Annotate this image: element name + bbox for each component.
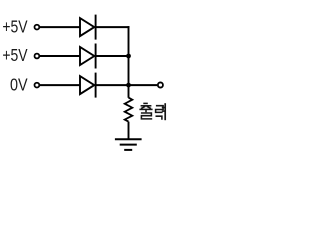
svg-text:0V: 0V xyxy=(10,74,28,94)
diode D1 xyxy=(80,15,96,40)
bus vertical wire xyxy=(128,26,130,98)
wire row 2 anode xyxy=(40,55,80,57)
resistor R1 xyxy=(125,98,133,122)
input terminal row 3 xyxy=(35,83,40,88)
wire row 1 cathode to bus xyxy=(96,26,130,28)
junction node row 3 xyxy=(126,83,131,88)
ground xyxy=(115,139,142,150)
diode D3 xyxy=(80,73,96,98)
wire row 2 cathode to bus xyxy=(96,55,129,57)
input terminal row 1 xyxy=(35,25,40,30)
wire resistor to ground xyxy=(128,122,130,140)
wire row 3 cathode to output xyxy=(96,84,158,86)
wire row 3 anode xyxy=(40,84,80,86)
junction node row 2 xyxy=(126,54,131,59)
input terminal row 2 xyxy=(35,54,40,59)
svg-text:+5V: +5V xyxy=(2,16,28,36)
svg-text:+5V: +5V xyxy=(2,45,28,65)
syllable ryeok xyxy=(156,103,166,120)
output terminal xyxy=(158,82,163,87)
diode D2 xyxy=(80,44,96,69)
label 출력 (output), hand-drawn Hangul xyxy=(139,103,165,120)
syllable chul xyxy=(139,103,152,119)
wire row 1 anode xyxy=(40,26,80,28)
